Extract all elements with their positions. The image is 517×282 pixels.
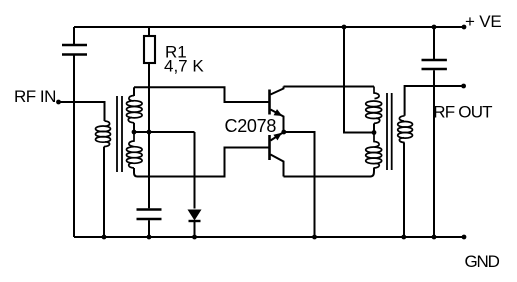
wire +VE top rail [74, 26, 464, 28]
wire T1 upper winding bottom lead [133, 123, 135, 132]
node center tap / R1 junction [147, 130, 152, 135]
wire output coil top lead to RF OUT [405, 86, 464, 116]
inductor L (input coil) [96, 121, 111, 147]
svg-text:GND: GND [465, 252, 500, 271]
wire left rail upper segment [73, 27, 75, 44]
node RF OUT [461, 84, 466, 89]
wire T2 upper winding bottom lead [373, 123, 375, 132]
resistor R1 [148, 27, 150, 35]
svg-text:4,7 K: 4,7 K [164, 57, 204, 76]
wire Q1 collector to T2 [284, 86, 375, 88]
wire T1 lower winding to base staircase Q2 [134, 148, 269, 177]
capacitor C (left decoupling) [62, 45, 87, 55]
wire input coil to ground rail [103, 147, 105, 237]
transformer T2 lower winding [366, 133, 382, 169]
svg-text:C2078: C2078 [225, 116, 277, 136]
diode D (center tap) [194, 132, 196, 209]
inductor L (output coil) [398, 116, 413, 143]
transistor Q1 (upper half of C2078) [270, 87, 284, 133]
transformer T1 lower winding [127, 132, 143, 168]
node +VE feed junction [342, 25, 347, 30]
capacitor C (center tap bypass) [148, 132, 150, 208]
node RF IN [56, 100, 61, 105]
wire emitters to ground rail [284, 132, 315, 237]
svg-text:+ VE: + VE [465, 12, 502, 31]
node +VE terminal [462, 25, 467, 30]
node ground rail junctions [102, 235, 467, 240]
wire T1 upper winding top lead [133, 87, 135, 96]
svg-text:RF OUT: RF OUT [433, 103, 492, 122]
wire T1 center tap [134, 131, 195, 133]
transistor Q2 (lower half of C2078) [270, 132, 284, 177]
node common emitters [281, 130, 286, 135]
wire RF IN to input coil [59, 102, 105, 121]
wire GND bottom rail [74, 236, 464, 238]
wire Q2 collector to T2 [284, 170, 375, 177]
transformer T1 upper winding [127, 96, 143, 123]
transformer T2 core [387, 93, 392, 170]
wire +VE to T2 center tap [344, 27, 374, 133]
node T1 center tap [132, 130, 137, 135]
node top rail / C junction [432, 25, 437, 30]
wire left rail lower segment [73, 56, 75, 238]
wire base staircase Q1 [134, 87, 269, 102]
wire T2 lower winding bottom lead [373, 168, 375, 171]
capacitor C (right decoupling) [433, 27, 435, 59]
wire output coil to ground rail [403, 143, 405, 238]
node T2 center tap [372, 130, 377, 135]
transformer T2 upper winding [366, 87, 382, 124]
svg-text:RF IN: RF IN [14, 87, 56, 106]
transformer T1 core [117, 96, 122, 172]
